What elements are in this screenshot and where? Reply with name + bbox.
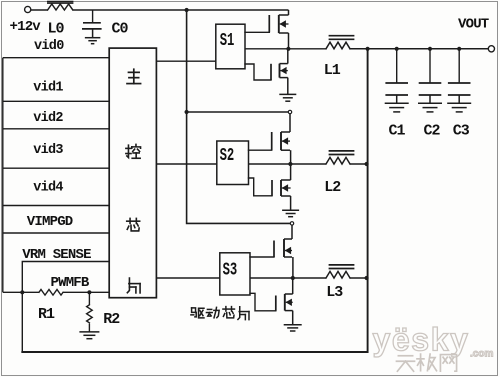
left input bus <box>2 58 4 293</box>
label 驱动芯片 <box>191 307 249 320</box>
ground (C2) <box>418 95 442 112</box>
svg-text:vid1: vid1 <box>33 81 63 96</box>
wire U1 output to S1 <box>156 60 215 62</box>
wire vid0 <box>3 57 109 59</box>
svg-text:PWMFB: PWMFB <box>51 275 90 291</box>
svg-text:S3: S3 <box>223 259 238 280</box>
wire S2 gate drive (low side) <box>249 178 273 196</box>
node junction: phase 3 <box>291 276 295 280</box>
driver chip S3 <box>220 253 250 295</box>
transistor Q5 (phase-3 high FET) <box>274 225 293 278</box>
svg-text:L2: L2 <box>324 179 341 196</box>
node junction: top rail / +12V bus <box>185 8 189 12</box>
svg-text:VIMPGD: VIMPGD <box>27 214 73 230</box>
wire +12V vertical distribution bus <box>187 10 291 223</box>
svg-text:L3: L3 <box>326 284 343 301</box>
wire VRM SENSE (sense feedback) <box>22 262 109 353</box>
svg-text:+12v: +12v <box>10 19 42 35</box>
wire phase-3 node <box>250 277 326 279</box>
svg-text:VOUT: VOUT <box>458 17 489 33</box>
svg-text:S1: S1 <box>220 30 235 51</box>
resistor R2 <box>87 292 93 331</box>
node junction: bus / phase-2 feed <box>185 110 189 114</box>
node junction: sense / PWMFB <box>20 290 24 294</box>
inductor L2 <box>326 151 354 164</box>
wire PWMFB left segment <box>3 291 39 293</box>
node junction: C2 tap <box>428 47 432 51</box>
wire phase-2 node <box>249 163 327 165</box>
node junction: phase 1 <box>286 47 290 51</box>
capacitor C3 <box>448 49 471 95</box>
transistor Q3 (phase-2 high FET) <box>272 114 291 164</box>
wire vid4 <box>3 205 109 207</box>
svg-text:R1: R1 <box>38 306 55 323</box>
svg-text:C2: C2 <box>424 123 441 140</box>
ground (C1) <box>385 95 409 112</box>
node junction: phase 2 <box>288 162 292 166</box>
inductor L0 <box>47 2 73 11</box>
inductor L1 <box>326 36 354 49</box>
svg-text:S2: S2 <box>220 145 235 166</box>
watermark yesky logo <box>373 322 494 360</box>
wire S3 gate drive (low side) <box>250 293 276 311</box>
svg-text:vid2: vid2 <box>33 111 63 126</box>
transistor Q4 (phase-2 low FET) <box>272 164 291 196</box>
ground (Q6 source) <box>284 311 302 331</box>
wire vid2 <box>3 128 109 130</box>
svg-text:R2: R2 <box>103 311 120 328</box>
inductor L3 <box>326 265 354 278</box>
wire phase-1 node <box>245 48 326 50</box>
output terminal VOUT <box>488 46 494 52</box>
watermark 天极网 <box>396 354 456 371</box>
wire VIMPGD <box>3 232 109 234</box>
svg-text:VRM SENSE: VRM SENSE <box>22 247 91 263</box>
node junction: C3 tap <box>457 47 461 51</box>
ground (Q4 source) <box>282 196 299 217</box>
connector circle: phase-3 drain <box>290 222 293 225</box>
wire S2 gate drive (high side) <box>249 149 272 151</box>
node junction: L1 / output bus <box>366 47 370 51</box>
label 主控芯片 (vertical) <box>126 69 141 293</box>
transistor Q6 (phase-3 low FET) <box>276 278 293 311</box>
ground (C0) <box>85 29 101 44</box>
wire L3 to output bus <box>350 277 367 279</box>
node junction: L3 / output bus <box>365 276 369 280</box>
ground (Q2 source) <box>279 78 296 102</box>
wire L2 to output bus <box>350 163 367 165</box>
wire S1 gate drive (high side) <box>245 31 269 33</box>
svg-text:L0: L0 <box>48 20 65 37</box>
ground (R2) <box>79 332 99 339</box>
wire +12V feed to phase-2 high FET <box>187 111 289 113</box>
transistor Q1 (phase-1 high FET) <box>269 10 288 49</box>
svg-text:yësky: yësky <box>373 322 470 358</box>
wire VOUT rail <box>350 48 488 50</box>
wire vid1 <box>3 100 109 102</box>
driver chip S1 <box>216 24 245 69</box>
node junction: C1 tap <box>395 47 399 51</box>
svg-text:vid4: vid4 <box>33 180 63 195</box>
svg-text:L1: L1 <box>324 62 341 79</box>
main control chip U1 <box>109 48 156 298</box>
capacitor C1 <box>385 49 408 95</box>
svg-text:C3: C3 <box>453 123 470 140</box>
wire S1 gate drive (low side) <box>245 64 271 80</box>
svg-text:C1: C1 <box>389 123 406 140</box>
svg-text:C0: C0 <box>112 20 129 37</box>
node junction: PWMFB / R2 <box>87 290 91 294</box>
resistor R1 <box>39 290 63 296</box>
wire output bus (right vertical + bottom feedback rail) <box>22 49 367 352</box>
wire PWMFB right segment <box>63 291 109 293</box>
svg-text:vid3: vid3 <box>33 143 63 158</box>
svg-text:.com: .com <box>470 349 493 360</box>
transistor Q2 (phase-1 low FET) <box>271 49 288 80</box>
svg-text:vid0: vid0 <box>34 39 64 54</box>
driver chip S2 <box>217 141 249 185</box>
wire S3 gate drive (high side) <box>250 256 274 258</box>
wire U1 output to S2 <box>156 163 216 165</box>
capacitor C2 <box>419 49 442 95</box>
wire from +12V terminal to L0 <box>31 9 48 11</box>
ground (C3) <box>447 95 471 112</box>
wire U1 output to S3 <box>156 277 219 279</box>
node junction: L2 / output bus <box>365 162 369 166</box>
wire +12V top rail <box>73 9 289 11</box>
wire vid3 <box>3 167 109 169</box>
input terminal +12V <box>25 6 31 12</box>
connector circle: phase-2 drain <box>288 110 291 113</box>
capacitor C0 <box>82 10 102 29</box>
